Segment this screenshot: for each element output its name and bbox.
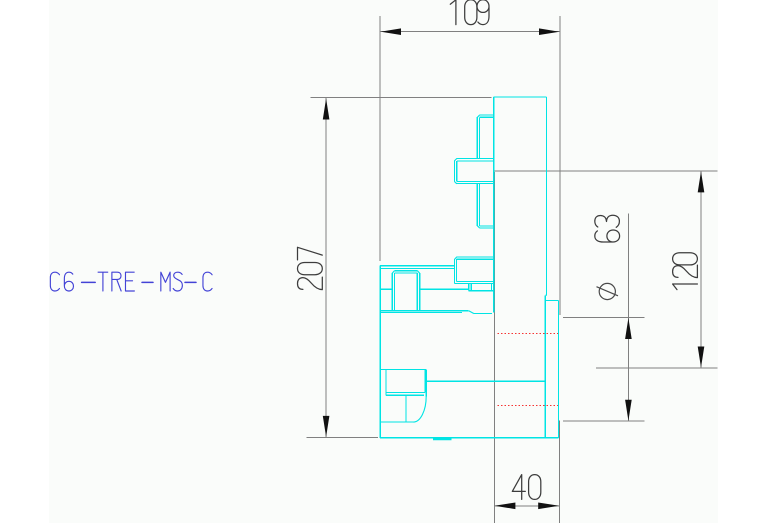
hidden red line lower	[498, 404, 559, 406]
upper boss bottom outer	[455, 283, 494, 285]
cross hbar top inner	[457, 160, 494, 162]
phi symbol slash	[597, 287, 619, 296]
dim text 120	[673, 253, 698, 290]
bottom left ledge	[380, 421, 413, 423]
dim 207 dimension line	[325, 98, 327, 437]
dim 120 arrow top	[698, 171, 705, 192]
part bottom edge	[380, 437, 558, 439]
small rect right inner	[491, 284, 493, 291]
part left body left edge	[379, 266, 381, 438]
mid line right segment	[420, 288, 469, 290]
dim 40 extension line left	[494, 172, 496, 523]
mid horizontal to right body	[426, 380, 545, 382]
dim 63 extension line bottom	[563, 420, 645, 422]
cross vbar bottom outer	[480, 227, 494, 229]
upper boss top outer	[457, 256, 494, 258]
lower boss right inner	[424, 370, 426, 393]
title text C6-TRE-MS-C	[50, 272, 212, 291]
cross vbar bottom inner	[480, 225, 494, 227]
dim 109 extension line right	[559, 16, 561, 315]
cross vbar top outer	[480, 114, 494, 116]
dim 40 extension line right	[559, 421, 561, 523]
right body left edge	[493, 97, 495, 312]
block chamfer left	[392, 271, 394, 273]
dim 109 dimension line	[380, 31, 560, 33]
block inner left	[394, 273, 396, 311]
dim 109 extension line left	[379, 16, 381, 261]
cross vbar inner left lower	[479, 183, 481, 226]
dim 120 arrow bottom	[698, 347, 705, 368]
block top outer	[394, 270, 417, 272]
cross vbar top inner	[480, 116, 494, 118]
dim 207 extension line bottom	[307, 436, 378, 438]
bottom tick	[433, 438, 452, 440]
part left body top edge inner	[380, 267, 454, 269]
cross hbar chamfer bottom	[454, 182, 456, 184]
dim 63 arrow up	[625, 318, 632, 339]
dim 120 dimension line	[700, 171, 702, 367]
upper boss bottom inner	[457, 280, 494, 282]
dim 40 dimension line	[494, 505, 560, 507]
small rect left outer	[468, 284, 470, 291]
lower shelf line upper	[380, 310, 469, 312]
dim 207 extension line top	[311, 97, 492, 99]
dim 207 arrow bottom	[323, 416, 330, 437]
cross hbar bottom outer	[457, 182, 494, 184]
stub below boss	[405, 395, 407, 422]
upper boss left outer	[454, 259, 456, 284]
small rect left inner	[470, 284, 472, 291]
dim text 63	[595, 215, 620, 242]
lower shelf line lower	[380, 311, 462, 313]
cross hbar left inner	[456, 161, 458, 182]
phi symbol circle	[599, 283, 615, 299]
upper boss chamfer	[455, 257, 457, 259]
dim 109 arrow left	[381, 28, 401, 35]
part left body top edge outer	[380, 265, 454, 267]
dim text 40	[512, 475, 541, 500]
cross hbar bottom inner	[457, 181, 494, 183]
lower boss bottom 1	[386, 391, 425, 393]
right body inner right edge	[544, 295, 546, 438]
lower boss left inner	[385, 370, 387, 396]
dim 120 extension line top	[494, 170, 717, 172]
cross hbar top outer	[457, 158, 494, 160]
cross hbar chamfer top	[454, 159, 456, 161]
cross vbar outer left upper	[476, 117, 478, 158]
cross vbar inner left upper	[479, 117, 481, 158]
lower boss top	[380, 369, 426, 371]
fillet arc	[413, 396, 426, 422]
hidden red line upper	[498, 332, 559, 334]
cross vbar chamfer top	[477, 115, 479, 117]
right body right edge upper	[545, 97, 547, 295]
block chamfer right	[418, 271, 420, 273]
dim 109 arrow right	[539, 28, 559, 35]
block top inner	[395, 272, 418, 274]
dim 207 arrow top	[323, 99, 330, 120]
upper boss left inner	[456, 259, 458, 281]
right body top edge	[494, 96, 547, 98]
block inner right	[416, 273, 418, 311]
shelf step line	[474, 313, 492, 315]
dim 40 arrow left	[494, 503, 515, 510]
right body jog	[545, 294, 546, 296]
dim text 109	[450, 0, 489, 25]
mid line left segment	[380, 288, 392, 290]
lower boss bottom 3	[386, 394, 424, 396]
lower boss right outer	[425, 370, 427, 397]
dim 63 extension line top	[563, 317, 645, 319]
dim 40 arrow right	[538, 503, 559, 510]
dim 63 dimension line	[627, 214, 629, 422]
cross hbar left outer	[453, 161, 455, 182]
upper boss top inner	[457, 258, 494, 260]
small rect bottom	[469, 290, 494, 292]
block outer left	[391, 273, 393, 311]
block outer right	[419, 273, 421, 311]
right boss top	[545, 299, 558, 301]
right boss right edge	[557, 300, 559, 437]
cross vbar chamfer bottom	[477, 226, 479, 228]
dim 120 extension line bottom	[596, 367, 718, 369]
dim 63 arrow down	[625, 400, 632, 421]
dim text 207	[298, 247, 323, 289]
cross vbar outer left lower	[476, 183, 478, 225]
shelf step diagonal	[469, 311, 474, 314]
